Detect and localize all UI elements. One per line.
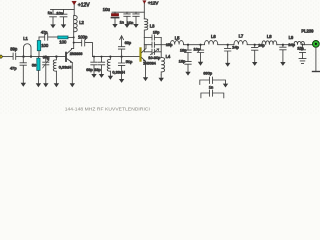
label L8 xyxy=(267,34,272,39)
label 15p (middle) xyxy=(166,42,173,47)
svg-text:10-30p: 10-30p xyxy=(148,55,160,60)
resistor R2 100 vertical xyxy=(37,37,40,57)
svg-text:68p: 68p xyxy=(86,67,93,72)
label 56 xyxy=(32,63,36,68)
capacitor C 100p coupling xyxy=(73,40,93,57)
svg-text:L6: L6 xyxy=(211,34,216,39)
label 24p (2) xyxy=(258,42,265,47)
svg-text:1n: 1n xyxy=(209,84,213,89)
label 24p (1) xyxy=(232,45,239,50)
wire L7 to L8 xyxy=(247,44,262,46)
matching ladder top rung capacitor 15p xyxy=(144,35,161,40)
wire bus under L1 xyxy=(24,56,67,58)
capacitor 1n (supply1) xyxy=(50,9,57,28)
label 660p xyxy=(203,71,212,76)
capacitor 68p shunt xyxy=(91,56,97,78)
node feedback-collector junction xyxy=(73,36,75,38)
label 10n xyxy=(56,11,63,16)
+12V supply 2 xyxy=(143,1,146,19)
svg-text:10n: 10n xyxy=(56,11,63,16)
svg-text:10p: 10p xyxy=(194,47,201,52)
label L1 xyxy=(23,36,28,41)
svg-text:100p: 100p xyxy=(78,34,88,39)
transistor Q2 2N6084 xyxy=(141,45,149,81)
capacitor C2 47p shunt xyxy=(20,57,26,87)
collector wire Q1 xyxy=(72,31,74,49)
label 24p (3) xyxy=(288,42,295,47)
label 1n (supply2) xyxy=(120,19,124,24)
inductor L5 xyxy=(170,41,183,45)
resistor R3 100 horizontal xyxy=(58,36,74,39)
capacitor 51p shunt xyxy=(118,57,124,83)
svg-text:33p: 33p xyxy=(94,67,101,72)
label L2 xyxy=(79,20,84,25)
svg-text:56: 56 xyxy=(32,63,36,68)
label 100p xyxy=(78,34,88,39)
svg-text:47p: 47p xyxy=(10,66,17,71)
inductor L2 xyxy=(74,15,78,31)
label L7 xyxy=(239,33,244,38)
label L6 xyxy=(211,34,216,39)
label 100 (horizontal resistor) xyxy=(59,39,67,44)
wire L6 to L7 xyxy=(218,44,234,46)
svg-text:PL239: PL239 xyxy=(301,29,314,34)
label L9 xyxy=(289,35,294,40)
label 10-30p xyxy=(148,55,160,60)
svg-text:18p: 18p xyxy=(180,47,187,52)
svg-text:60p: 60p xyxy=(43,55,50,60)
svg-text:1n: 1n xyxy=(48,10,52,15)
label 0,33uH xyxy=(59,64,72,69)
svg-text:15p: 15p xyxy=(297,45,304,50)
capacitor 10p shunt xyxy=(197,44,203,66)
inductor L4 shunt xyxy=(159,58,165,82)
svg-text:10n: 10n xyxy=(127,20,134,25)
inductor L6 xyxy=(205,41,218,45)
label +12V (supply 2) xyxy=(148,1,158,6)
wire L5 to L6 xyxy=(184,44,205,46)
supply rail 2 xyxy=(112,11,144,13)
capacitor C1 39p xyxy=(13,53,23,59)
wire L8 to L9 xyxy=(277,44,294,46)
capacitor 24p shunt 3 xyxy=(280,44,286,66)
capacitor 47p feedback xyxy=(45,34,58,41)
label 62p xyxy=(125,40,132,45)
label 18p (upper) xyxy=(180,47,187,52)
label 33p xyxy=(94,67,101,72)
label 10u xyxy=(103,7,111,12)
label 1n (feedthrough) xyxy=(209,84,213,89)
capacitor 15p output shunt xyxy=(300,44,306,59)
inductor L7 xyxy=(234,41,247,45)
input connector J1 xyxy=(0,55,3,58)
svg-text:L3: L3 xyxy=(150,24,155,29)
svg-text:144-148 MHZ RF KUVVETLENDIRICI: 144-148 MHZ RF KUVVETLENDIRICI xyxy=(65,106,150,112)
+12V supply 1 xyxy=(72,1,76,15)
svg-text:+12V: +12V xyxy=(78,3,90,9)
svg-text:51p: 51p xyxy=(126,59,133,64)
label L3 xyxy=(150,24,155,29)
trimmer capacitor 10-30p xyxy=(144,49,161,55)
label 39p xyxy=(10,47,18,52)
label L5 xyxy=(175,36,180,41)
svg-text:15p: 15p xyxy=(153,30,160,35)
label L4 xyxy=(166,54,171,59)
capacitor 33p shunt xyxy=(98,56,104,78)
svg-text:L5: L5 xyxy=(175,36,180,41)
inductor L3 xyxy=(144,19,148,38)
svg-text:L1: L1 xyxy=(23,36,28,41)
label 10n (supply2) xyxy=(127,20,134,25)
svg-text:0,33uH: 0,33uH xyxy=(112,69,125,74)
svg-text:L4: L4 xyxy=(166,54,171,59)
svg-text:0,33uH: 0,33uH xyxy=(59,64,72,69)
label PL239 xyxy=(301,29,314,34)
transistor Q1 2N3866 xyxy=(66,49,75,88)
wire L9 to output xyxy=(303,44,313,46)
filter line wire xyxy=(161,44,170,46)
capacitor 24p shunt 2 xyxy=(252,44,258,66)
inductor L emitter-bus 0.33uH xyxy=(53,55,59,87)
earth ground output cap xyxy=(299,58,306,63)
svg-text:2N3866: 2N3866 xyxy=(70,52,83,56)
feedthrough capacitor 1n xyxy=(201,90,224,98)
wire input to C1 xyxy=(3,56,13,58)
electrolytic capacitor 10u xyxy=(111,12,118,28)
resistor R1 56 xyxy=(36,57,41,88)
svg-text:24p: 24p xyxy=(232,45,239,50)
inductor L9 xyxy=(294,41,305,44)
ladder right vertical wire xyxy=(160,38,162,58)
inductor L8 xyxy=(262,41,277,45)
label 0,33uH (shunt) xyxy=(112,69,125,74)
label 1n xyxy=(48,10,52,15)
svg-text:10u: 10u xyxy=(103,7,111,12)
svg-text:+12V: +12V xyxy=(148,1,158,6)
node A junction xyxy=(22,55,32,57)
feedback wire xyxy=(39,36,44,38)
label 47p xyxy=(10,66,17,71)
label 60p xyxy=(43,55,50,60)
svg-text:39p: 39p xyxy=(10,47,18,52)
trimmer capacitor 60p xyxy=(43,55,49,87)
capacitor 10n (supply1) xyxy=(60,9,67,28)
output connector PL239 xyxy=(313,41,320,48)
connector ground stem xyxy=(313,47,320,71)
svg-text:1n: 1n xyxy=(120,19,124,24)
label 2N6084 xyxy=(143,61,156,65)
svg-text:2N6084: 2N6084 xyxy=(143,61,156,65)
svg-text:62p: 62p xyxy=(125,40,132,45)
feedthrough capacitor 660p xyxy=(200,77,228,88)
svg-text:100: 100 xyxy=(59,39,67,44)
matching ladder middle rung capacitor 15p xyxy=(144,38,161,52)
title text xyxy=(65,106,150,112)
label 18p (lower) xyxy=(179,59,186,64)
svg-text:L9: L9 xyxy=(289,35,294,40)
inductor 0,33uH shunt xyxy=(107,56,113,80)
svg-text:18p: 18p xyxy=(179,59,186,64)
label 2N3866 xyxy=(70,52,83,56)
label 68p xyxy=(86,67,93,72)
capacitor 10n (supply2) xyxy=(133,12,139,28)
svg-text:L2: L2 xyxy=(79,20,84,25)
capacitor 24p shunt 1 xyxy=(225,44,231,67)
label 15p (top) xyxy=(153,30,160,35)
interstage bus wire xyxy=(93,56,140,58)
svg-text:L8: L8 xyxy=(267,34,272,39)
svg-text:100: 100 xyxy=(41,43,49,48)
capacitor 1n (supply2) xyxy=(124,12,130,28)
svg-text:L7: L7 xyxy=(239,33,244,38)
label 51p xyxy=(126,59,133,64)
label 100 (vertical resistor) xyxy=(41,43,49,48)
capacitor 18p series pair xyxy=(185,44,191,76)
svg-text:24p: 24p xyxy=(258,42,265,47)
svg-text:47p: 47p xyxy=(41,29,48,34)
label +12V xyxy=(78,3,90,9)
svg-text:660p: 660p xyxy=(203,71,212,76)
variable capacitor 62p xyxy=(118,36,124,58)
supply rail 1 xyxy=(51,8,75,10)
label 15p (output) xyxy=(297,45,304,50)
inductor L1 xyxy=(24,44,32,57)
label 47p feedback xyxy=(41,29,48,34)
label 10p xyxy=(194,47,201,52)
